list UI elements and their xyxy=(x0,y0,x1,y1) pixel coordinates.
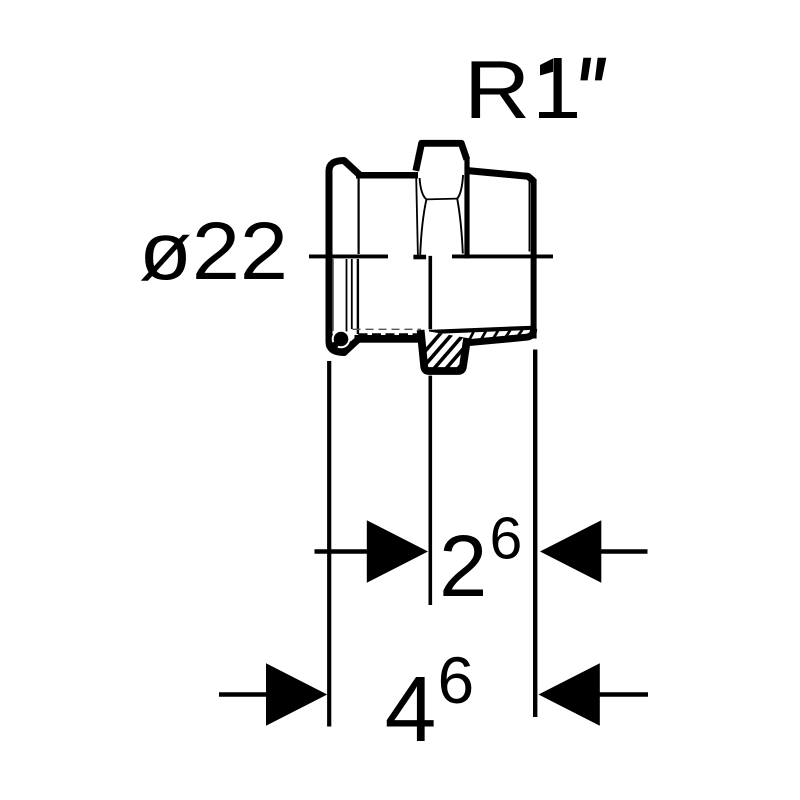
extension line middle upper xyxy=(428,256,432,329)
dimension arrow 4 left xyxy=(266,663,327,725)
dimension line 2 left xyxy=(315,549,371,554)
centerline left segment xyxy=(309,254,388,258)
extension line left xyxy=(327,361,331,727)
label R1" : double prime xyxy=(580,58,606,81)
dashed insertion line upper xyxy=(353,328,422,330)
dimension arrow 2 right xyxy=(540,520,601,582)
hex right cone edge xyxy=(457,199,463,254)
svg-text:2: 2 xyxy=(439,518,487,615)
socket inner wall line (section) xyxy=(357,259,359,334)
thread end face line xyxy=(528,182,530,252)
thread top edge xyxy=(467,171,534,182)
dimension arrow 4 right xyxy=(539,663,600,725)
dashed insertion line lower xyxy=(359,333,421,335)
centerline right segment xyxy=(452,254,553,258)
thread hatch marks xyxy=(469,329,535,340)
hex waist line xyxy=(426,198,457,201)
hex nut top outline xyxy=(416,143,467,171)
svg-text:ø22: ø22 xyxy=(139,205,288,296)
hex right chamfer arc xyxy=(457,175,463,199)
groove wall line 1 (section) xyxy=(346,259,348,332)
bulge inner corner fill xyxy=(331,334,353,350)
extension line middle lower xyxy=(428,376,432,605)
hex bottom stub xyxy=(413,255,426,260)
hex lobe hatch xyxy=(407,326,495,372)
dimension line 2 right xyxy=(598,549,648,554)
label R1" : digit 1 with foot serif xyxy=(539,58,577,118)
extension line right xyxy=(533,350,537,718)
o-ring white gap xyxy=(332,330,351,349)
dimension line 4 right xyxy=(597,692,648,697)
hex left end face line xyxy=(416,178,418,255)
svg-text:6: 6 xyxy=(490,506,523,572)
thread right end edge xyxy=(531,179,537,339)
socket top edge xyxy=(356,172,418,179)
socket step line (top) xyxy=(358,178,360,254)
groove wall line 2 (section) xyxy=(351,259,353,329)
hex left chamfer arc xyxy=(420,178,427,199)
hex lobe (section) outline xyxy=(421,330,468,371)
o-ring xyxy=(334,332,349,347)
svg-text:4: 4 xyxy=(385,657,437,761)
bore line (section right) xyxy=(429,328,532,332)
o-ring bottom-left bridge xyxy=(332,342,339,349)
dimension line 4 left xyxy=(219,692,272,697)
svg-text:R: R xyxy=(464,43,530,136)
thread outer band (section) xyxy=(467,329,534,343)
press socket bulge outline xyxy=(329,161,361,353)
hex left cone edge xyxy=(420,199,426,254)
svg-text:6: 6 xyxy=(438,643,475,717)
socket wall band (section, bottom) xyxy=(355,335,422,343)
bore line inner gray (section) xyxy=(332,259,334,331)
dimension arrow 2 left xyxy=(367,520,428,582)
hex-thread boundary vertical xyxy=(464,157,469,259)
